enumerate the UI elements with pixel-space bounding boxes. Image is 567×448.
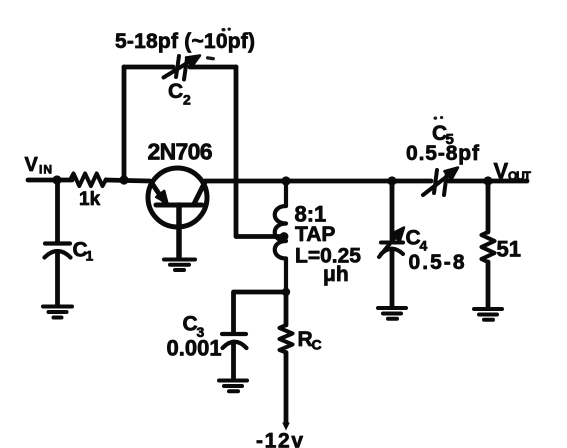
label C3 value 0.001 [167, 336, 222, 361]
label C5 value 0.5-8pf [406, 142, 480, 165]
transistor Q1 2N706 [148, 168, 207, 257]
label Q1 2N706 [148, 139, 213, 165]
label supply -12v [256, 430, 303, 448]
resistor R2 51 ohm [482, 232, 495, 262]
svg-text:1k: 1k [79, 189, 101, 210]
junction: emitter node [119, 175, 128, 184]
label R2 value 51 [497, 237, 521, 262]
svg-text:1: 1 [86, 248, 94, 264]
scan smudge above label 10pf [222, 28, 231, 32]
wire: C3 to ground [231, 342, 236, 378]
label L1 ratio 8:1 [295, 202, 327, 227]
label L1 TAP [295, 223, 335, 246]
junction: VIN/C1 node [52, 175, 61, 184]
svg-text:5-18pf (~10pf): 5-18pf (~10pf) [115, 30, 255, 53]
capacitor C1 [45, 244, 71, 258]
ground: C1 [43, 307, 72, 318]
label RC [298, 328, 322, 353]
svg-text:IN: IN [39, 163, 52, 177]
junction: C4 node [387, 176, 396, 185]
capacitor C3 [222, 334, 247, 348]
wire: C4 to ground [390, 249, 395, 306]
junction: L1 bottom node [282, 288, 290, 296]
wire: VIN to R1 [28, 178, 72, 183]
junction: L1 tap [280, 232, 289, 241]
ground: R2 [474, 309, 502, 320]
capacitor C5 (variable, 0.5-8pf) [423, 168, 458, 196]
svg-text:2N706: 2N706 [148, 139, 213, 165]
svg-text:OUT: OUT [508, 169, 532, 183]
label C1 [73, 239, 94, 264]
wire: emitter node to C2 left riser [122, 67, 127, 180]
junction: L1 top node [281, 176, 290, 185]
wire: R1 to emitter node [106, 180, 150, 181]
wire: C2 top left segment [124, 65, 173, 70]
label C2 value 5-18pf (~10pf) [115, 30, 255, 53]
wire: L1 bottom to C3 [234, 292, 287, 332]
wire: collector to output net [205, 179, 431, 184]
svg-text:-12v: -12v [256, 430, 303, 448]
svg-text:C: C [183, 313, 198, 336]
wire: C1 to ground [55, 252, 60, 305]
svg-text:0.001: 0.001 [167, 336, 222, 361]
resistor R1 1k [70, 174, 106, 187]
svg-text:2: 2 [183, 92, 191, 108]
resistor RC [280, 325, 293, 353]
svg-text:V: V [25, 154, 39, 176]
wire: VOUT to R2 [486, 181, 491, 232]
scan smudge above C5 [434, 116, 444, 120]
label L1 unit uh [323, 263, 349, 286]
inductor L1 [275, 181, 286, 292]
svg-text:TAP: TAP [295, 223, 335, 246]
svg-text:0.5-8: 0.5-8 [409, 251, 465, 274]
wire: C5 to VOUT [449, 179, 527, 184]
svg-text:μh: μh [323, 263, 349, 286]
label L1 value L=0.25 [295, 245, 361, 268]
svg-text:C: C [406, 227, 421, 250]
label C5 [432, 122, 454, 148]
wire: L1 bottom to RC [284, 292, 289, 325]
label R1 value 1k [79, 189, 101, 210]
ground: C4 [378, 308, 406, 319]
wire: RC to -12v supply [284, 353, 289, 426]
svg-text:0.5-8pf: 0.5-8pf [406, 142, 480, 165]
svg-text:51: 51 [497, 237, 521, 262]
label C2 [168, 80, 191, 108]
junction: VOUT node [483, 176, 492, 185]
label C4 value 0.5-8 [409, 251, 465, 274]
wire: output net to C4 [390, 181, 395, 240]
ground: Q1 base [164, 260, 195, 271]
wire: C2 top right segment [190, 65, 236, 70]
svg-text:V: V [494, 159, 509, 184]
node VIN label [25, 154, 53, 177]
svg-text:C: C [312, 337, 322, 353]
wire: R2 to ground [486, 262, 491, 307]
label C3 [183, 313, 205, 341]
capacitor C4 (variable, 0.5-8) [379, 228, 404, 258]
scan smudge right of C2 arrow [206, 56, 215, 61]
svg-text:C: C [168, 80, 183, 103]
capacitor C2 (variable, 5-18pf) [164, 56, 201, 80]
svg-text:R: R [298, 328, 313, 351]
wire: C2 right riser to tap [236, 67, 284, 237]
label VOUT [494, 159, 532, 184]
wire: C1 branch [55, 180, 60, 243]
label C4 [406, 227, 428, 254]
ground: C3 [219, 381, 247, 392]
